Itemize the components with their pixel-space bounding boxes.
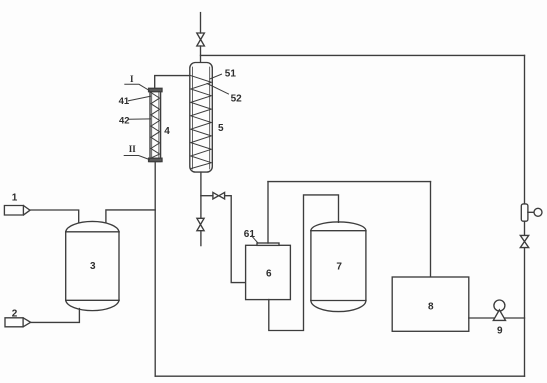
feed nozzle 2: [5, 318, 31, 327]
wire column 4 overhead to column 5: [155, 76, 190, 89]
column 4 body: [149, 88, 162, 161]
valve top vent: [197, 33, 205, 46]
leader 61: [252, 236, 259, 243]
column 5 coil: [191, 76, 212, 169]
svg-text:52: 52: [231, 93, 243, 104]
pump 9: [493, 300, 505, 320]
svg-text:4: 4: [164, 126, 170, 137]
leader 51: [210, 74, 222, 79]
reactor 3 vessel: [66, 221, 119, 310]
tank 6: [246, 245, 291, 299]
leader 52: [207, 84, 229, 95]
valve on recycle downcomer: [520, 235, 528, 247]
flow meter FM: [521, 204, 542, 221]
svg-text:1: 1: [12, 193, 18, 204]
svg-text:6: 6: [266, 268, 272, 279]
svg-text:I: I: [130, 74, 134, 84]
wire reactor 3 overhead to downcomer: [106, 210, 155, 222]
wire middle header: [268, 181, 431, 183]
wire column 5 bottoms: [200, 172, 202, 218]
svg-text:5: 5: [218, 123, 224, 134]
wire tank 6 to tank 7 transfer loop: [269, 195, 339, 331]
unit 8: [392, 277, 469, 331]
wire column 4 bottoms downcomer: [154, 161, 156, 376]
valve below column 5: [197, 218, 204, 230]
wire header to unit 8: [430, 182, 432, 277]
column 5 body: [190, 63, 213, 173]
svg-text:II: II: [129, 144, 137, 154]
leader I: [125, 84, 150, 90]
svg-text:41: 41: [119, 96, 130, 107]
wire unit 8 to pump 9: [469, 317, 525, 319]
leader 42: [129, 118, 151, 120]
wire header to tank 6 lid: [267, 182, 269, 243]
feed nozzle 1: [4, 206, 30, 216]
wire feed2 to reactor 3 bottom: [31, 309, 80, 323]
svg-text:3: 3: [90, 261, 96, 272]
svg-text:2: 2: [12, 309, 18, 320]
svg-text:51: 51: [225, 68, 237, 79]
lid 61: [257, 243, 279, 245]
tank 7 vessel: [311, 222, 366, 312]
wire top recycle header: [201, 54, 525, 56]
wire top vent stub: [200, 13, 202, 33]
column 4 coil: [151, 93, 160, 159]
leader II: [124, 156, 149, 160]
wire drain stub: [200, 231, 202, 246]
wire valve to column 5 top: [200, 46, 202, 63]
wire bottom recycle line: [155, 375, 524, 377]
wire valve to tank 6: [225, 196, 246, 283]
wire right recycle downcomer: [524, 55, 526, 376]
svg-text:8: 8: [428, 302, 434, 313]
svg-text:9: 9: [497, 326, 503, 337]
wire branch to horizontal valve: [201, 195, 213, 197]
svg-text:42: 42: [119, 115, 130, 126]
valve horizontal to tank 6: [213, 192, 225, 199]
svg-text:7: 7: [336, 262, 342, 273]
wire feed1 to reactor 3: [30, 210, 79, 223]
leader 41: [129, 96, 151, 101]
